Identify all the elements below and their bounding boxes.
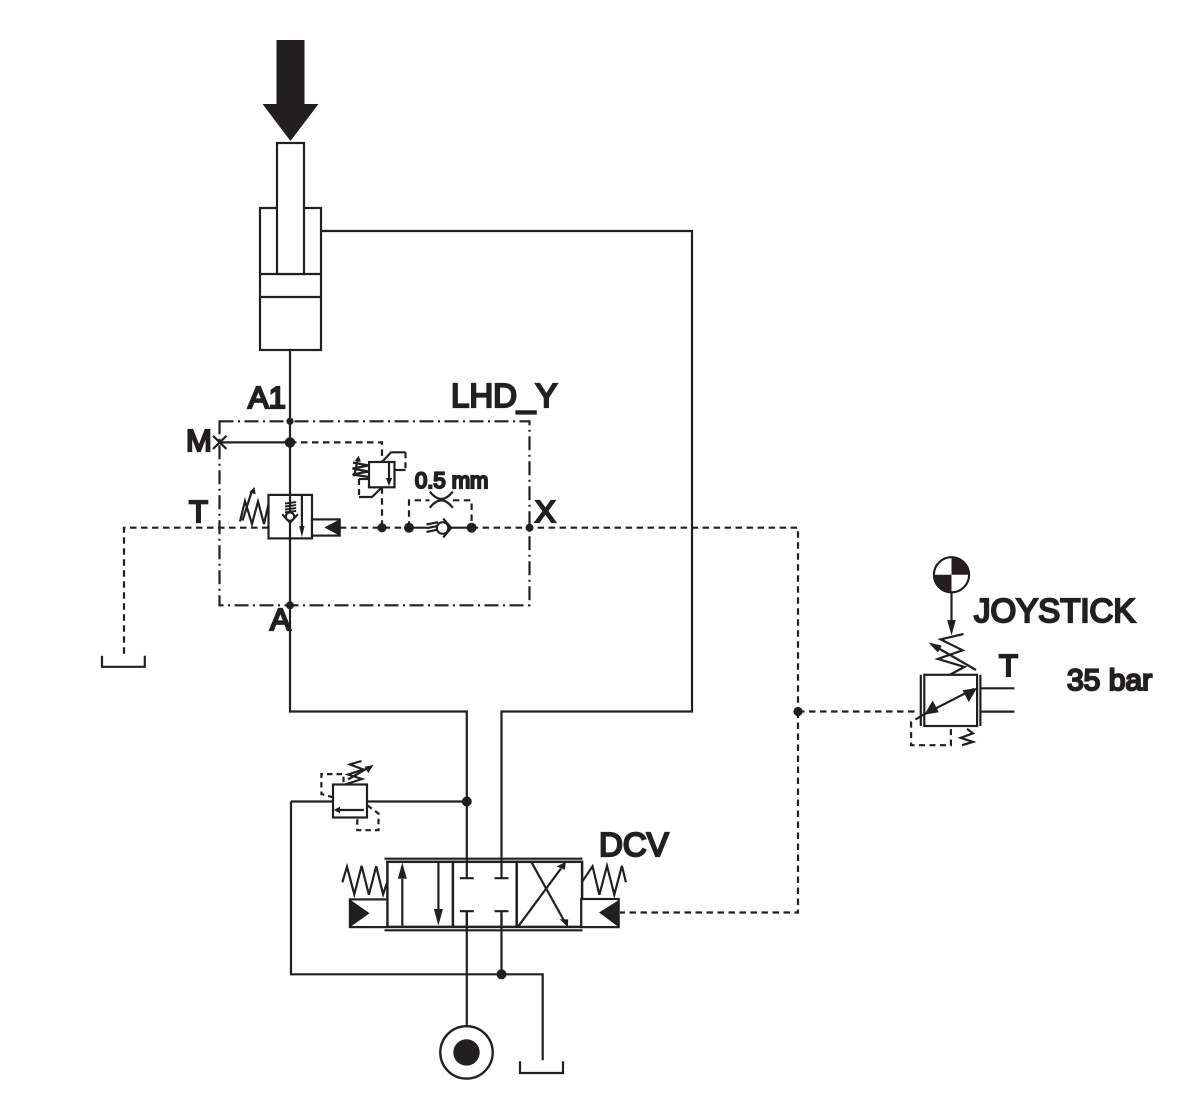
adjustment arrow (243, 491, 253, 521)
internal check: ball (286, 512, 294, 520)
node: orifice branch right (467, 523, 477, 533)
pressure reducing valve (joystick controlled) (911, 634, 1014, 745)
wire: DCV T port down (500, 912, 502, 975)
pilot relief valve (inside LHD) (353, 452, 406, 497)
bottom spring (961, 729, 973, 745)
check valve with spring (pilot line) (409, 519, 472, 538)
svg-text:35 bar: 35 bar (1067, 664, 1152, 697)
left box: parallel arrows (401, 879, 403, 926)
node A (junction dot on boundary) (286, 601, 294, 609)
internal check: spring (285, 502, 296, 512)
node M junction (285, 437, 295, 447)
wire: cylinder rod-side port to DCV B-port (321, 231, 692, 878)
left spring (342, 866, 387, 895)
svg-text:0.5 mm: 0.5 mm (415, 468, 488, 493)
spring (353, 463, 370, 478)
internal check: seat (282, 514, 298, 522)
wire: cylinder cap-side port to LHD A1 (289, 350, 291, 421)
load arrow (force on cylinder) (263, 40, 319, 141)
node: pilot junction (377, 523, 386, 532)
node X (on boundary) (526, 524, 534, 532)
wire: pilot to orifice branch (dashed) (340, 527, 409, 529)
node: orifice branch left (404, 523, 414, 533)
orifice 0.5 mm (430, 492, 453, 508)
wire: main line A1 to A and to DCV A-port (290, 421, 467, 877)
cylinder piston (260, 274, 321, 297)
svg-text:X: X (535, 494, 556, 529)
svg-text:M: M (186, 423, 212, 458)
wire: M port line (220, 441, 290, 443)
internal line through check (289, 495, 291, 539)
cylinder C1 barrel (260, 208, 321, 350)
svg-text:JOYSTICK: JOYSTICK (974, 592, 1135, 629)
spring (left) (240, 501, 269, 524)
port T line (980, 687, 1014, 689)
wire: relief drain to tank line (291, 802, 543, 1061)
svg-text:A1: A1 (248, 380, 286, 415)
joystick symbol (934, 557, 969, 635)
wire: X pilot line (dashed) (472, 528, 798, 712)
drain hook bottom-left (359, 478, 369, 480)
right box: crossed arrows (518, 869, 561, 927)
spring (345, 761, 364, 785)
body (387, 862, 582, 927)
right pilot operator (581, 899, 619, 927)
left pilot operator (350, 899, 387, 927)
LHD_Y enclosure (dash-dot boundary) (220, 421, 530, 605)
pilot hook (dashed, left-top) (321, 774, 343, 797)
port line lower (980, 710, 1014, 712)
adjustment arrow (938, 648, 976, 670)
wire: T drain line (dashed) to tank (124, 528, 269, 656)
svg-text:DCV: DCV (599, 826, 669, 863)
drain hook (dashed, bottom-right) (357, 805, 378, 830)
valve body (924, 675, 977, 726)
svg-text:T: T (189, 494, 208, 529)
wire: pilot relief to pilot line (dashed) (381, 487, 383, 527)
center box: blocked ports (460, 862, 474, 927)
node: DCV T port junction (497, 969, 507, 979)
node: pilot tee (793, 707, 802, 716)
bottom rail (385, 929, 583, 931)
cylinder rod (277, 143, 304, 274)
spring top (938, 634, 965, 675)
top rail (385, 858, 583, 860)
drain loop (dashed) (911, 717, 951, 746)
node A1 (junction dot on boundary) (286, 418, 293, 425)
adjustment arrow (348, 769, 366, 780)
wire: DCV P port to pump (466, 912, 468, 1027)
counterbalance valve (load holding) (240, 487, 340, 538)
tank symbol (LHD T drain) (102, 656, 145, 667)
wire: relief valve tee line (291, 800, 467, 802)
right spring (582, 866, 626, 895)
node: relief tee on P line (462, 797, 472, 807)
wire: pilot to joystick valve (dashed) (798, 710, 919, 712)
pump / pressure source (440, 1026, 492, 1078)
wire: pilot down to DCV (dashed) (620, 712, 798, 913)
internal flow arrow (restricted path) (301, 495, 303, 527)
wire: pilot line from M junction to pilot relief (dashed) (290, 442, 382, 462)
pilot operator triangle (324, 519, 340, 535)
relief valve (DCV supply) (321, 761, 378, 830)
svg-text:LHD_Y: LHD_Y (451, 377, 557, 414)
pilot operator box (312, 519, 340, 535)
tank symbol (system return) (520, 1061, 563, 1073)
flow arrow (921, 689, 974, 716)
adjustment arrow (354, 460, 358, 477)
orifice 0.5 mm bypass (dashed) (409, 500, 472, 527)
svg-text:T: T (999, 648, 1018, 683)
DCV 4/3 directional control valve (342, 859, 626, 931)
drain hook top-right (383, 452, 406, 461)
port M plug mark (213, 436, 227, 449)
